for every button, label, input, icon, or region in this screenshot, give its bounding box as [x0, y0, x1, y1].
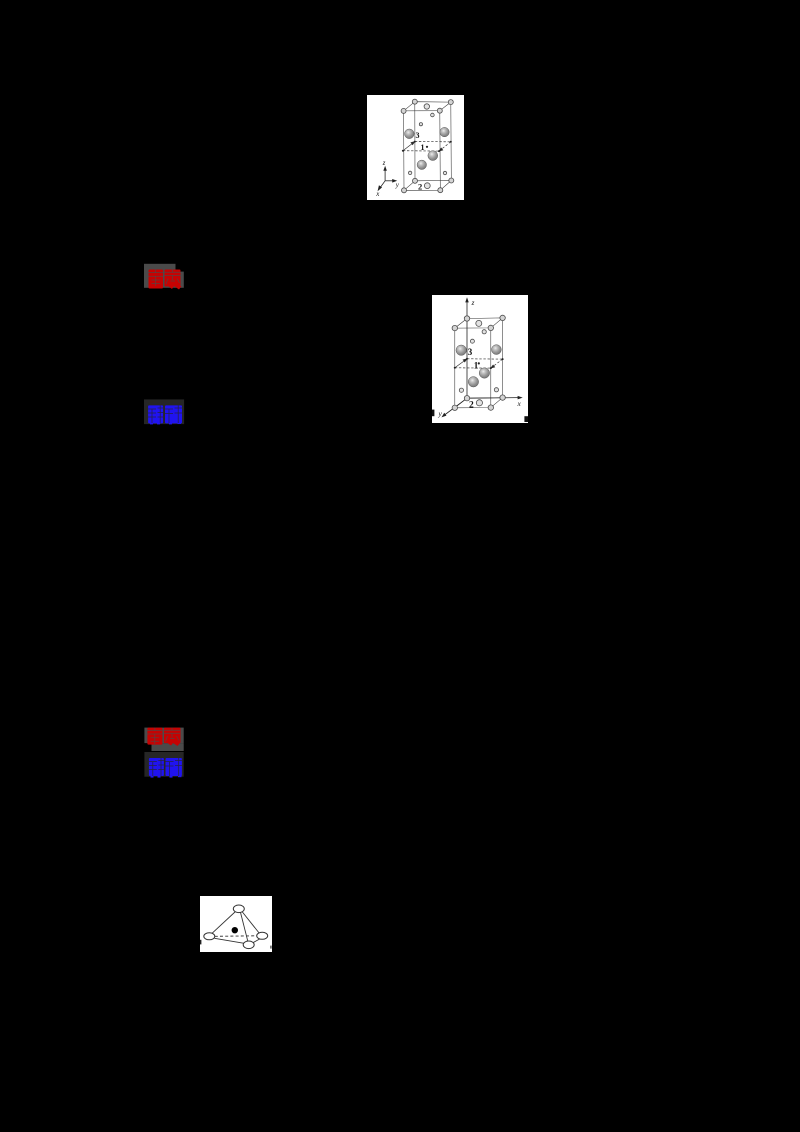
analysis label 2 (blue) — [144, 752, 185, 778]
small atoms — [459, 320, 498, 406]
figure 2: unit cell with axes (right) — [432, 295, 528, 423]
cell edges — [404, 102, 452, 191]
svg-text:z: z — [382, 159, 386, 167]
svg-text:z: z — [471, 298, 475, 307]
mid-plane dashed — [403, 142, 451, 152]
axes — [378, 167, 396, 190]
svg-text:3: 3 — [468, 347, 473, 357]
mid-plane corner dots — [402, 141, 452, 153]
svg-text:x: x — [517, 399, 522, 408]
corner atoms — [452, 315, 505, 410]
face/edge atoms small — [408, 104, 446, 189]
axis labels — [438, 298, 522, 418]
corner atoms — [401, 99, 454, 193]
large interior spheres — [456, 345, 501, 387]
svg-text:y: y — [438, 409, 443, 418]
answer label 1 (red) — [144, 263, 185, 290]
clipped text marks — [200, 939, 201, 944]
number labels — [416, 131, 425, 192]
svg-text:x: x — [375, 190, 380, 198]
svg-text:1: 1 — [474, 360, 479, 370]
number labels — [468, 347, 479, 411]
clipped text marks — [432, 410, 434, 417]
figure 1: unit cell (top center) — [367, 95, 464, 200]
large interior spheres — [405, 127, 450, 169]
analysis label 1 (blue) — [144, 399, 185, 425]
svg-text:3: 3 — [416, 131, 420, 140]
cell edges — [455, 318, 503, 408]
figure 3: tetrahedron — [200, 896, 272, 953]
svg-text:y: y — [395, 181, 400, 189]
svg-text:2: 2 — [469, 401, 474, 411]
svg-text:1: 1 — [421, 143, 425, 152]
axes — [442, 299, 521, 417]
mid-plane dashed — [455, 359, 503, 368]
answer label 2 (red) — [144, 727, 185, 752]
svg-text:2: 2 — [418, 182, 422, 192]
